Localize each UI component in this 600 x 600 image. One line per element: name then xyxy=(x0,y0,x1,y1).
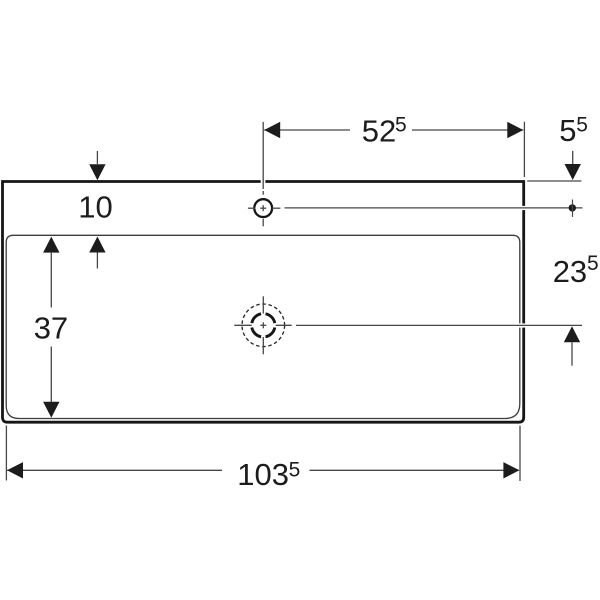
svg-text:37: 37 xyxy=(34,310,68,345)
svg-text:5: 5 xyxy=(587,252,599,275)
svg-text:5: 5 xyxy=(289,459,301,482)
svg-text:23: 23 xyxy=(553,254,587,289)
svg-text:5: 5 xyxy=(576,113,588,136)
svg-text:52: 52 xyxy=(362,113,396,148)
svg-text:5: 5 xyxy=(559,113,576,148)
svg-text:103: 103 xyxy=(237,457,289,492)
svg-text:5: 5 xyxy=(395,113,407,136)
svg-text:10: 10 xyxy=(78,190,112,225)
